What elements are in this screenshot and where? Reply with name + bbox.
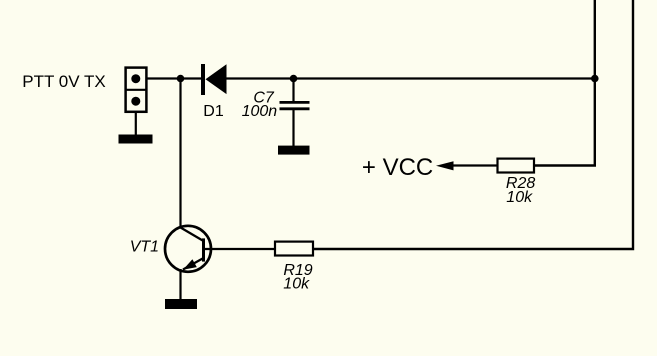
wire node B to node C: [294, 77, 596, 79]
wire node A to diode: [181, 77, 202, 79]
svg-text:PTT 0V TX: PTT 0V TX: [22, 72, 105, 91]
wire VT1 emitter to ground: [179, 269, 181, 300]
ground under connector: [119, 135, 153, 144]
wire diode to node B: [227, 77, 295, 79]
node C junction: [591, 75, 599, 83]
resistor R19: [275, 242, 313, 256]
wire VT1 base to R19: [204, 248, 275, 250]
svg-text:VT1: VT1: [130, 238, 159, 255]
svg-text:+ VCC: + VCC: [362, 154, 433, 181]
svg-text:100n: 100n: [242, 103, 278, 120]
diode D1: [201, 64, 227, 95]
wire connector to ground: [135, 113, 137, 136]
node B junction: [290, 75, 298, 83]
wire R19 to right riser: [314, 0, 633, 249]
wire connector to node A: [148, 77, 182, 79]
wire node B to C7: [292, 79, 294, 104]
wire node A to VT1 collector: [179, 79, 181, 229]
wire C7 to ground: [292, 109, 294, 147]
svg-text:10k: 10k: [506, 189, 533, 206]
svg-text:D1: D1: [203, 103, 224, 120]
resistor R28: [498, 159, 535, 173]
connector 2-pin header: [125, 68, 148, 112]
capacitor C7: [280, 102, 310, 108]
wire R28 to VCC arrow: [451, 164, 497, 166]
VCC arrow: [436, 161, 454, 170]
transistor VT1: [165, 226, 211, 272]
svg-text:10k: 10k: [283, 275, 310, 292]
ground under VT1: [165, 299, 197, 309]
wire vertical top to node C and down to R28: [535, 0, 595, 166]
ground under C7: [278, 146, 310, 155]
node A junction: [177, 75, 185, 83]
